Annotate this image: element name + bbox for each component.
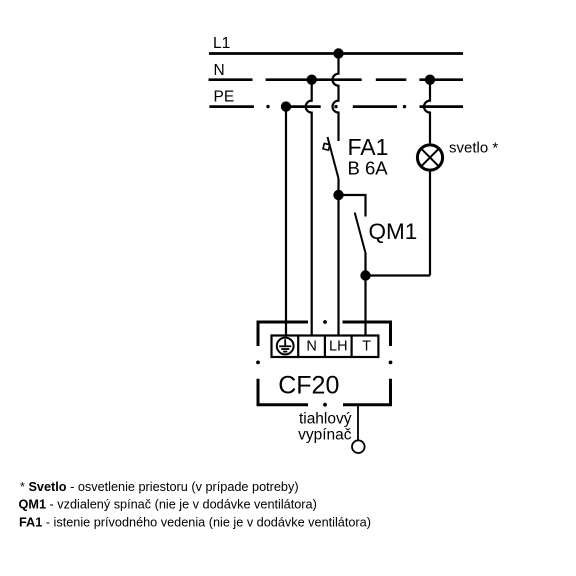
- wire node to LH terminal: [337, 195, 339, 337]
- svg-text:T: T: [362, 339, 371, 355]
- wire node to lamp branch: [366, 274, 431, 276]
- node on N (left): [307, 75, 317, 85]
- power line PE (dash-dot): [209, 105, 463, 108]
- wire node to QM1 top: [339, 195, 366, 217]
- node on L1: [333, 48, 343, 58]
- wire node to T terminal: [364, 276, 366, 337]
- svg-text:vypínač: vypínač: [298, 427, 352, 444]
- breaker FA1 square symbol: [323, 143, 330, 150]
- svg-text:svetlo *: svetlo *: [449, 140, 498, 157]
- wire lamp to QM1 output node: [429, 172, 431, 276]
- svg-text:PE: PE: [214, 89, 235, 106]
- svg-text:L1: L1: [213, 35, 230, 52]
- svg-text:tiahlový: tiahlový: [299, 411, 352, 428]
- node on PE: [281, 101, 291, 111]
- terminal block outline: [272, 336, 379, 358]
- enclosure pattern dots: [256, 320, 392, 407]
- node QM1 output: [360, 270, 370, 280]
- wire PE to earth terminal: [285, 107, 287, 337]
- PE pattern dots: [266, 105, 406, 108]
- node on N (right, lamp branch): [425, 75, 435, 85]
- svg-text:FA1: FA1: [348, 134, 389, 160]
- svg-text:N: N: [214, 62, 225, 79]
- breaker FA1 contact arm: [328, 137, 339, 179]
- earth terminal symbol: [277, 338, 294, 355]
- svg-text:LH: LH: [329, 339, 348, 355]
- power line L1: [209, 52, 463, 55]
- svg-text:QM1: QM1: [369, 219, 418, 244]
- pull switch cord: [357, 405, 359, 440]
- svg-text:* Svetlo - osvetlenie priestor: * Svetlo - osvetlenie priestoru (v prípa…: [20, 480, 299, 494]
- svg-text:CF20: CF20: [278, 372, 339, 400]
- pull switch knob: [352, 440, 365, 453]
- wire L1 to FA1 with hops over N and PE: [333, 54, 339, 142]
- wire QM1 to node: [364, 253, 366, 276]
- svg-text:B 6A: B 6A: [348, 158, 389, 179]
- power line N (dashed): [209, 78, 464, 81]
- wire FA1 to node: [337, 179, 339, 196]
- wire N to terminal N with hop over PE: [306, 80, 312, 337]
- lamp svetlo: [417, 145, 442, 170]
- wire N to lamp with hop over PE: [424, 80, 430, 144]
- svg-text:N: N: [306, 339, 316, 355]
- terminal dividers: [298, 336, 351, 358]
- svg-text:FA1 - istenie prívodného veden: FA1 - istenie prívodného vedenia (nie je…: [19, 515, 371, 529]
- switch QM1 contact arm: [355, 213, 366, 254]
- node FA1 output: [333, 190, 343, 200]
- fan enclosure dash-dot box: [258, 322, 391, 405]
- svg-text:QM1 - vzdialený spínač (nie je: QM1 - vzdialený spínač (nie je v dodávke…: [19, 498, 317, 512]
